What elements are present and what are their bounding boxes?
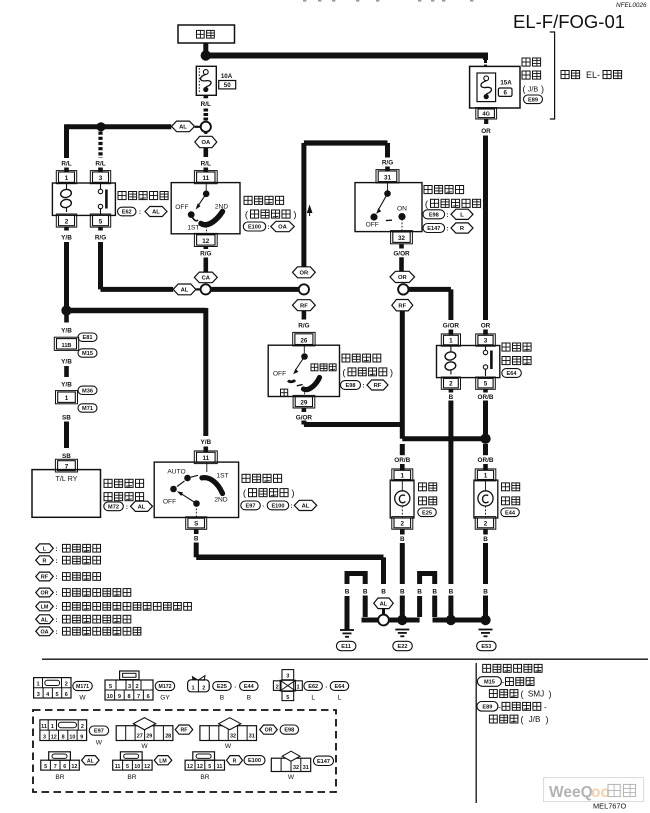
option tag OR and connector tag E98, colour W — [260, 725, 278, 734]
svg-text:E98: E98 — [284, 728, 294, 734]
svg-text:2: 2 — [65, 219, 69, 226]
svg-text::: : — [55, 604, 57, 611]
svg-text:J/B: J/B — [529, 715, 541, 724]
svg-text:1: 1 — [296, 684, 299, 690]
left front fog lamp bulb — [401, 480, 403, 491]
svg-text:1ST: 1ST — [187, 225, 199, 232]
svg-text:): ) — [549, 689, 552, 699]
wire node to node (R/G row) — [211, 287, 299, 292]
wire label Y/B under relay pin 2 — [64, 227, 69, 231]
connector node stack B — [398, 284, 408, 294]
connector tag E147, colour W — [314, 756, 334, 765]
left front fog lamp body — [390, 480, 414, 518]
svg-text:ON: ON — [397, 205, 407, 212]
left front fog lamp pin 1 — [392, 469, 413, 481]
svg-text:B: B — [345, 588, 350, 595]
svg-text:E100: E100 — [248, 225, 261, 231]
svg-text:S: S — [194, 521, 198, 528]
svg-text:EL-F/FOG-01: EL-F/FOG-01 — [513, 11, 625, 32]
cropped text remnants at top edge — [303, 0, 306, 2]
option tag AL (left branch) — [172, 121, 195, 132]
svg-text:OR: OR — [398, 275, 408, 281]
svg-text:T/L RY: T/L RY — [56, 474, 78, 483]
connector tags E25 E44, colour B B — [213, 682, 232, 691]
direction arrow on feed wire — [307, 205, 313, 214]
connector 27/29/28 face with keyway — [133, 718, 155, 730]
svg-text:AL: AL — [152, 210, 160, 216]
svg-text:28: 28 — [165, 734, 171, 740]
svg-text::: : — [55, 590, 57, 597]
svg-text:R/L: R/L — [201, 161, 211, 168]
svg-text:AL: AL — [179, 125, 187, 131]
svg-text:15A: 15A — [500, 80, 512, 87]
svg-text:50: 50 — [224, 82, 231, 89]
svg-text:-: - — [502, 678, 505, 687]
svg-text:OR: OR — [300, 270, 310, 276]
auto light control unit body T/L RY — [32, 470, 101, 518]
svg-text:2: 2 — [484, 521, 488, 528]
svg-text:-: - — [544, 703, 547, 712]
ground bus 1 — [362, 618, 379, 623]
svg-text:.: . — [539, 665, 541, 674]
lower combination switch body — [154, 462, 238, 517]
front fog relay body — [437, 346, 500, 378]
svg-text:E11: E11 — [341, 644, 351, 650]
junction dot Y/B branch — [61, 305, 71, 315]
svg-text:·: · — [234, 684, 236, 691]
connector node stack A — [299, 284, 309, 294]
svg-text:RF: RF — [181, 728, 188, 734]
svg-text:E98: E98 — [429, 212, 439, 218]
svg-text:E62: E62 — [308, 684, 318, 690]
svg-text:29: 29 — [146, 734, 152, 740]
connector node (circle) below fuse — [201, 122, 211, 132]
svg-text:E44: E44 — [244, 684, 255, 690]
svg-text:2: 2 — [65, 682, 68, 688]
junction node A (battery splice) — [201, 50, 211, 60]
svg-text:B: B — [449, 588, 454, 595]
svg-text:3: 3 — [286, 674, 289, 680]
svg-text:B: B — [483, 588, 488, 595]
right front fog lamp bulb — [485, 480, 487, 491]
tail lamp relay body — [52, 183, 115, 215]
fog switch internals OFF front rear — [303, 345, 305, 353]
svg-text:E64: E64 — [335, 684, 346, 690]
dashed option box — [33, 710, 336, 792]
svg-text:12: 12 — [144, 764, 150, 770]
svg-text:5: 5 — [109, 684, 112, 690]
svg-text:12: 12 — [51, 734, 57, 740]
svg-text:4G: 4G — [482, 111, 490, 117]
wire relay pin2 down to junction — [64, 242, 69, 306]
svg-text:Y/B: Y/B — [61, 381, 72, 388]
option tag AL, colour BR — [82, 756, 100, 765]
svg-text:BR: BR — [200, 774, 209, 781]
svg-text:32: 32 — [293, 765, 299, 771]
option tag AL on R/G row — [173, 284, 196, 295]
svg-text:oo: oo — [591, 784, 610, 801]
svg-text:L: L — [460, 212, 464, 218]
svg-text:AL: AL — [87, 758, 95, 764]
svg-text:1: 1 — [51, 724, 54, 730]
front fog relay pin 5 — [476, 377, 496, 389]
connector tag M36 — [78, 386, 97, 394]
svg-text:R/L: R/L — [201, 101, 211, 108]
svg-text:GY: GY — [160, 694, 170, 701]
svg-text:L: L — [338, 694, 342, 701]
svg-text:R: R — [43, 558, 47, 564]
svg-text:27: 27 — [137, 734, 143, 740]
svg-text:1: 1 — [449, 338, 453, 345]
option tag AL on ground wire — [374, 598, 394, 609]
svg-text:32: 32 — [230, 734, 236, 740]
connector LM face — [120, 752, 142, 760]
wire drop into J/B fuse box — [484, 60, 487, 66]
connector E62 cross face — [282, 670, 294, 680]
svg-text::: : — [267, 224, 269, 231]
svg-text:(: ( — [523, 84, 526, 94]
svg-text:3: 3 — [99, 175, 103, 182]
junction dot on left branch — [96, 122, 105, 131]
svg-text:G/OR: G/OR — [296, 414, 313, 421]
svg-text:E98: E98 — [346, 383, 356, 389]
svg-text:CA: CA — [202, 276, 211, 282]
right front fog lamp pin 2 — [475, 517, 496, 530]
svg-text:M36: M36 — [82, 388, 93, 394]
svg-text:29: 29 — [300, 399, 308, 406]
option tag RF below stack B — [392, 300, 413, 311]
svg-text::: : — [362, 383, 364, 390]
front fog switch internals OFF ON — [387, 183, 389, 191]
svg-text::: : — [55, 574, 57, 581]
svg-text:E97: E97 — [246, 503, 256, 509]
svg-text:E25: E25 — [422, 510, 432, 516]
svg-text:31: 31 — [384, 174, 392, 181]
svg-text:Y/B: Y/B — [200, 439, 211, 446]
wire left branch to tail relay — [67, 124, 172, 129]
see EL-POWER text (Chinese) — [561, 71, 569, 79]
wire relay pin2 B down to ground bus — [448, 401, 453, 585]
wire main feed bus to J/B — [206, 53, 486, 59]
separator vertical line bottom right — [475, 663, 477, 803]
svg-text:11: 11 — [202, 175, 209, 182]
option tag CA — [194, 272, 217, 283]
J/B labels (Chinese) fuse box — [522, 58, 530, 66]
svg-text:(: ( — [521, 714, 524, 724]
right front fog lamp pin 1 — [475, 469, 496, 481]
J/B fuse F2 block — [477, 73, 496, 102]
svg-text:11: 11 — [41, 724, 47, 730]
svg-text:E100: E100 — [271, 503, 284, 509]
svg-text:E25: E25 — [217, 684, 227, 690]
svg-text:10: 10 — [107, 694, 113, 700]
svg-text:E89: E89 — [482, 704, 492, 710]
svg-text::: : — [55, 629, 57, 636]
connector tag M15 — [78, 349, 97, 357]
svg-text:B: B — [449, 394, 454, 401]
svg-text:E22: E22 — [398, 644, 408, 650]
svg-text:W: W — [96, 739, 103, 746]
svg-text:G/OR: G/OR — [443, 322, 460, 329]
svg-text:10: 10 — [134, 764, 140, 770]
connector 32/31 face with keyway — [200, 726, 257, 741]
connector R face — [193, 752, 215, 760]
svg-text:): ) — [293, 210, 296, 221]
connector tag M71 — [78, 404, 97, 412]
upper combination switch pin 12 — [194, 233, 217, 246]
J/B pin 4G — [476, 108, 497, 119]
upper combination switch (light switch) body — [171, 183, 240, 234]
lower combination switch pin 11 — [194, 451, 217, 464]
svg-text::: : — [55, 546, 57, 553]
svg-text:Y/B: Y/B — [61, 235, 72, 242]
svg-text:AL: AL — [380, 601, 388, 607]
svg-text:E97: E97 — [94, 729, 104, 735]
svg-text:(: ( — [521, 689, 524, 699]
option tag R and connector tag E100, colour BR — [227, 756, 243, 765]
upper combination switch pin 11 — [194, 171, 217, 184]
tail lamp relay pin 3 — [90, 171, 110, 184]
option tag OR above stack B — [390, 271, 415, 282]
svg-text:5: 5 — [484, 381, 488, 388]
svg-text:11: 11 — [217, 764, 223, 770]
svg-text:R/L: R/L — [61, 161, 71, 168]
svg-text:AL: AL — [41, 617, 49, 623]
connector tag M172, colour GY — [155, 681, 175, 690]
svg-text:E147: E147 — [427, 226, 440, 232]
svg-text:B: B — [220, 694, 225, 701]
svg-text:M71: M71 — [82, 406, 93, 412]
wire fuse to node, label R/L — [204, 95, 209, 99]
svg-text:8: 8 — [127, 694, 130, 700]
svg-text:E44: E44 — [505, 510, 516, 516]
svg-text:OR/B: OR/B — [478, 394, 494, 401]
fuse F1 number 50 — [219, 81, 236, 89]
bracket see EL-POWER — [550, 32, 555, 119]
svg-text:12: 12 — [71, 764, 77, 770]
svg-text:OA: OA — [201, 140, 211, 146]
svg-text:J/B: J/B — [528, 85, 539, 94]
svg-text:W: W — [141, 743, 148, 750]
svg-text:): ) — [541, 84, 544, 94]
svg-text:M15: M15 — [82, 351, 93, 357]
svg-text:OA: OA — [40, 629, 48, 635]
svg-text:OFF: OFF — [163, 499, 176, 506]
svg-text:SMJ: SMJ — [528, 690, 544, 699]
svg-text:R/L: R/L — [95, 161, 105, 168]
svg-text:G/OR: G/OR — [393, 250, 410, 257]
auto light control unit pin 7 — [55, 459, 77, 472]
wire OR down to fog relay pin 3 — [483, 136, 488, 321]
watermark WeeQoo — [544, 778, 644, 802]
front fog relay contact — [483, 350, 487, 354]
svg-text::: : — [55, 617, 57, 624]
connector tag E81 — [78, 333, 97, 341]
svg-text:RF: RF — [41, 575, 49, 581]
connector E25/E44 face — [192, 676, 199, 681]
svg-text:7: 7 — [54, 764, 57, 770]
junction dot left lamp ground — [397, 615, 407, 625]
svg-text:2ND: 2ND — [214, 496, 227, 503]
fog switch label front (Chinese) — [281, 389, 288, 396]
front fog switch pin 31 — [376, 170, 399, 183]
svg-text:EL-: EL- — [586, 70, 600, 80]
tail lamp relay coil — [60, 188, 72, 198]
svg-text:11: 11 — [202, 455, 209, 462]
svg-text:OR: OR — [481, 128, 491, 135]
svg-text:5: 5 — [55, 692, 58, 698]
svg-text:6: 6 — [65, 692, 68, 698]
connector E97 face — [40, 720, 87, 741]
svg-text:W: W — [288, 774, 295, 781]
svg-text:1: 1 — [401, 472, 405, 479]
wire relay pin5 R/G down and right to node — [98, 242, 103, 289]
svg-text:31: 31 — [249, 734, 255, 740]
junction dot right lamp ground — [480, 615, 490, 625]
svg-text:R/G: R/G — [200, 251, 211, 258]
option tag OR above stack A — [293, 267, 316, 278]
wire corner down-left to relay pin 1 — [64, 124, 69, 158]
svg-text:R: R — [233, 758, 237, 764]
ground bus 2 — [433, 618, 486, 623]
svg-text:E100: E100 — [248, 758, 261, 764]
junction dot relay ground — [446, 615, 456, 625]
svg-text:BR: BR — [55, 774, 64, 781]
wire stack B to fog relay pin 1 — [409, 287, 451, 292]
svg-text:R/G: R/G — [95, 235, 106, 242]
svg-text:B: B — [400, 588, 405, 595]
svg-text:): ) — [291, 488, 294, 499]
svg-text:L: L — [311, 694, 315, 701]
svg-text:M72: M72 — [108, 504, 119, 510]
ground symbol E22 — [395, 629, 409, 631]
svg-text:·: · — [262, 503, 264, 510]
svg-text:E64: E64 — [507, 371, 518, 377]
front fog relay pin 1 — [441, 334, 460, 346]
wire label R/G under relay pin 5 — [98, 227, 103, 231]
svg-text:R/G: R/G — [382, 160, 393, 167]
junction dot OR/B — [480, 434, 490, 444]
svg-text:OFF: OFF — [273, 371, 286, 378]
J/B fuse box outer — [470, 66, 520, 108]
svg-text:E147: E147 — [317, 759, 330, 765]
svg-text:31: 31 — [303, 765, 309, 771]
connector node on R/G row — [201, 284, 211, 294]
battery box (Chinese label) — [178, 25, 235, 43]
ground symbol E53 — [479, 629, 493, 631]
fog light switch body — [268, 345, 339, 396]
tail lamp relay pin 2 — [56, 214, 76, 227]
svg-text:6: 6 — [63, 764, 66, 770]
option tag RF, colour W — [175, 725, 193, 734]
through connector 1 — [56, 391, 78, 404]
svg-text:3: 3 — [128, 684, 131, 690]
svg-text:11B: 11B — [62, 343, 72, 349]
right lamp labels (Chinese) E44 — [502, 483, 510, 491]
svg-text:): ) — [546, 714, 549, 724]
svg-text:B: B — [247, 694, 252, 701]
svg-text:RF: RF — [300, 303, 308, 309]
front fog relay coil — [444, 351, 456, 361]
svg-text:12: 12 — [202, 238, 210, 245]
ground tag E53 — [477, 641, 497, 650]
left front fog lamp pin 2 — [392, 517, 413, 530]
svg-text:2: 2 — [135, 684, 138, 690]
svg-text:Y/B: Y/B — [61, 328, 72, 335]
svg-text:6: 6 — [503, 90, 507, 97]
front fog switch pin 32 — [391, 231, 413, 244]
tail lamp relay label (Chinese) and tags E62 AL — [118, 192, 126, 200]
connector tag E97, colour W — [89, 726, 109, 735]
wire label Y/B below junction — [64, 315, 69, 323]
svg-text:OR/B: OR/B — [478, 457, 494, 464]
dashed wire to relay pin 3 — [98, 132, 102, 159]
svg-text:2: 2 — [81, 724, 84, 730]
svg-text:2: 2 — [449, 381, 453, 388]
wire label OR under 4G — [484, 119, 488, 124]
wire Y/B junction to lower switch column — [67, 308, 206, 314]
svg-text:LM: LM — [41, 605, 49, 611]
svg-text:AL: AL — [181, 288, 189, 294]
svg-text:9: 9 — [118, 694, 121, 700]
wire stack B down to fog lamp row — [400, 311, 405, 439]
fog light switch pin 29 — [293, 395, 315, 408]
legend option tags with descriptions (Chinese) — [36, 544, 54, 553]
svg-text:1: 1 — [36, 682, 39, 688]
left lamp labels (Chinese) E25 — [419, 483, 427, 491]
svg-text::: : — [446, 226, 448, 233]
svg-text:SB: SB — [62, 414, 71, 421]
svg-text:7: 7 — [137, 694, 140, 700]
svg-text:8: 8 — [62, 734, 65, 740]
svg-text:2: 2 — [202, 685, 205, 691]
svg-text:OR: OR — [265, 728, 273, 734]
ground splice node (circle) — [378, 615, 389, 626]
svg-text:11: 11 — [115, 764, 121, 770]
svg-text:Y/B: Y/B — [61, 359, 72, 366]
svg-text:2: 2 — [401, 521, 405, 528]
svg-text:M15: M15 — [484, 680, 495, 686]
svg-text:B: B — [400, 536, 405, 543]
svg-text::: : — [139, 209, 141, 216]
right front fog lamp body — [474, 480, 498, 518]
svg-text:MEL767O: MEL767O — [593, 802, 627, 811]
svg-text:10: 10 — [69, 734, 75, 740]
connector tag M171, colour W — [73, 681, 93, 690]
connector M171 face — [34, 678, 71, 698]
svg-text:OFF: OFF — [175, 204, 188, 211]
connector E147 face with keyway — [271, 758, 310, 771]
svg-text:5: 5 — [99, 219, 103, 226]
ground loop E11 to bus — [345, 596, 350, 630]
svg-text:3: 3 — [43, 734, 46, 740]
svg-text:2: 2 — [276, 684, 279, 690]
svg-text:9: 9 — [80, 734, 83, 740]
front fog relay pin 2 — [441, 377, 460, 389]
svg-text:W: W — [79, 694, 86, 701]
svg-text::: : — [55, 558, 57, 565]
svg-text:R/G: R/G — [298, 322, 309, 329]
wire OR/B row to left lamp — [402, 436, 485, 441]
wire down to front fog switch pin 31 — [385, 143, 390, 158]
svg-text:E62: E62 — [122, 210, 132, 216]
lower combination switch pin S — [186, 517, 207, 530]
option tag RF below stack A — [293, 300, 316, 311]
ground tag E11 — [336, 641, 356, 650]
svg-text:32: 32 — [398, 235, 406, 242]
svg-text:M171: M171 — [76, 684, 89, 690]
svg-text:M172: M172 — [159, 684, 172, 690]
